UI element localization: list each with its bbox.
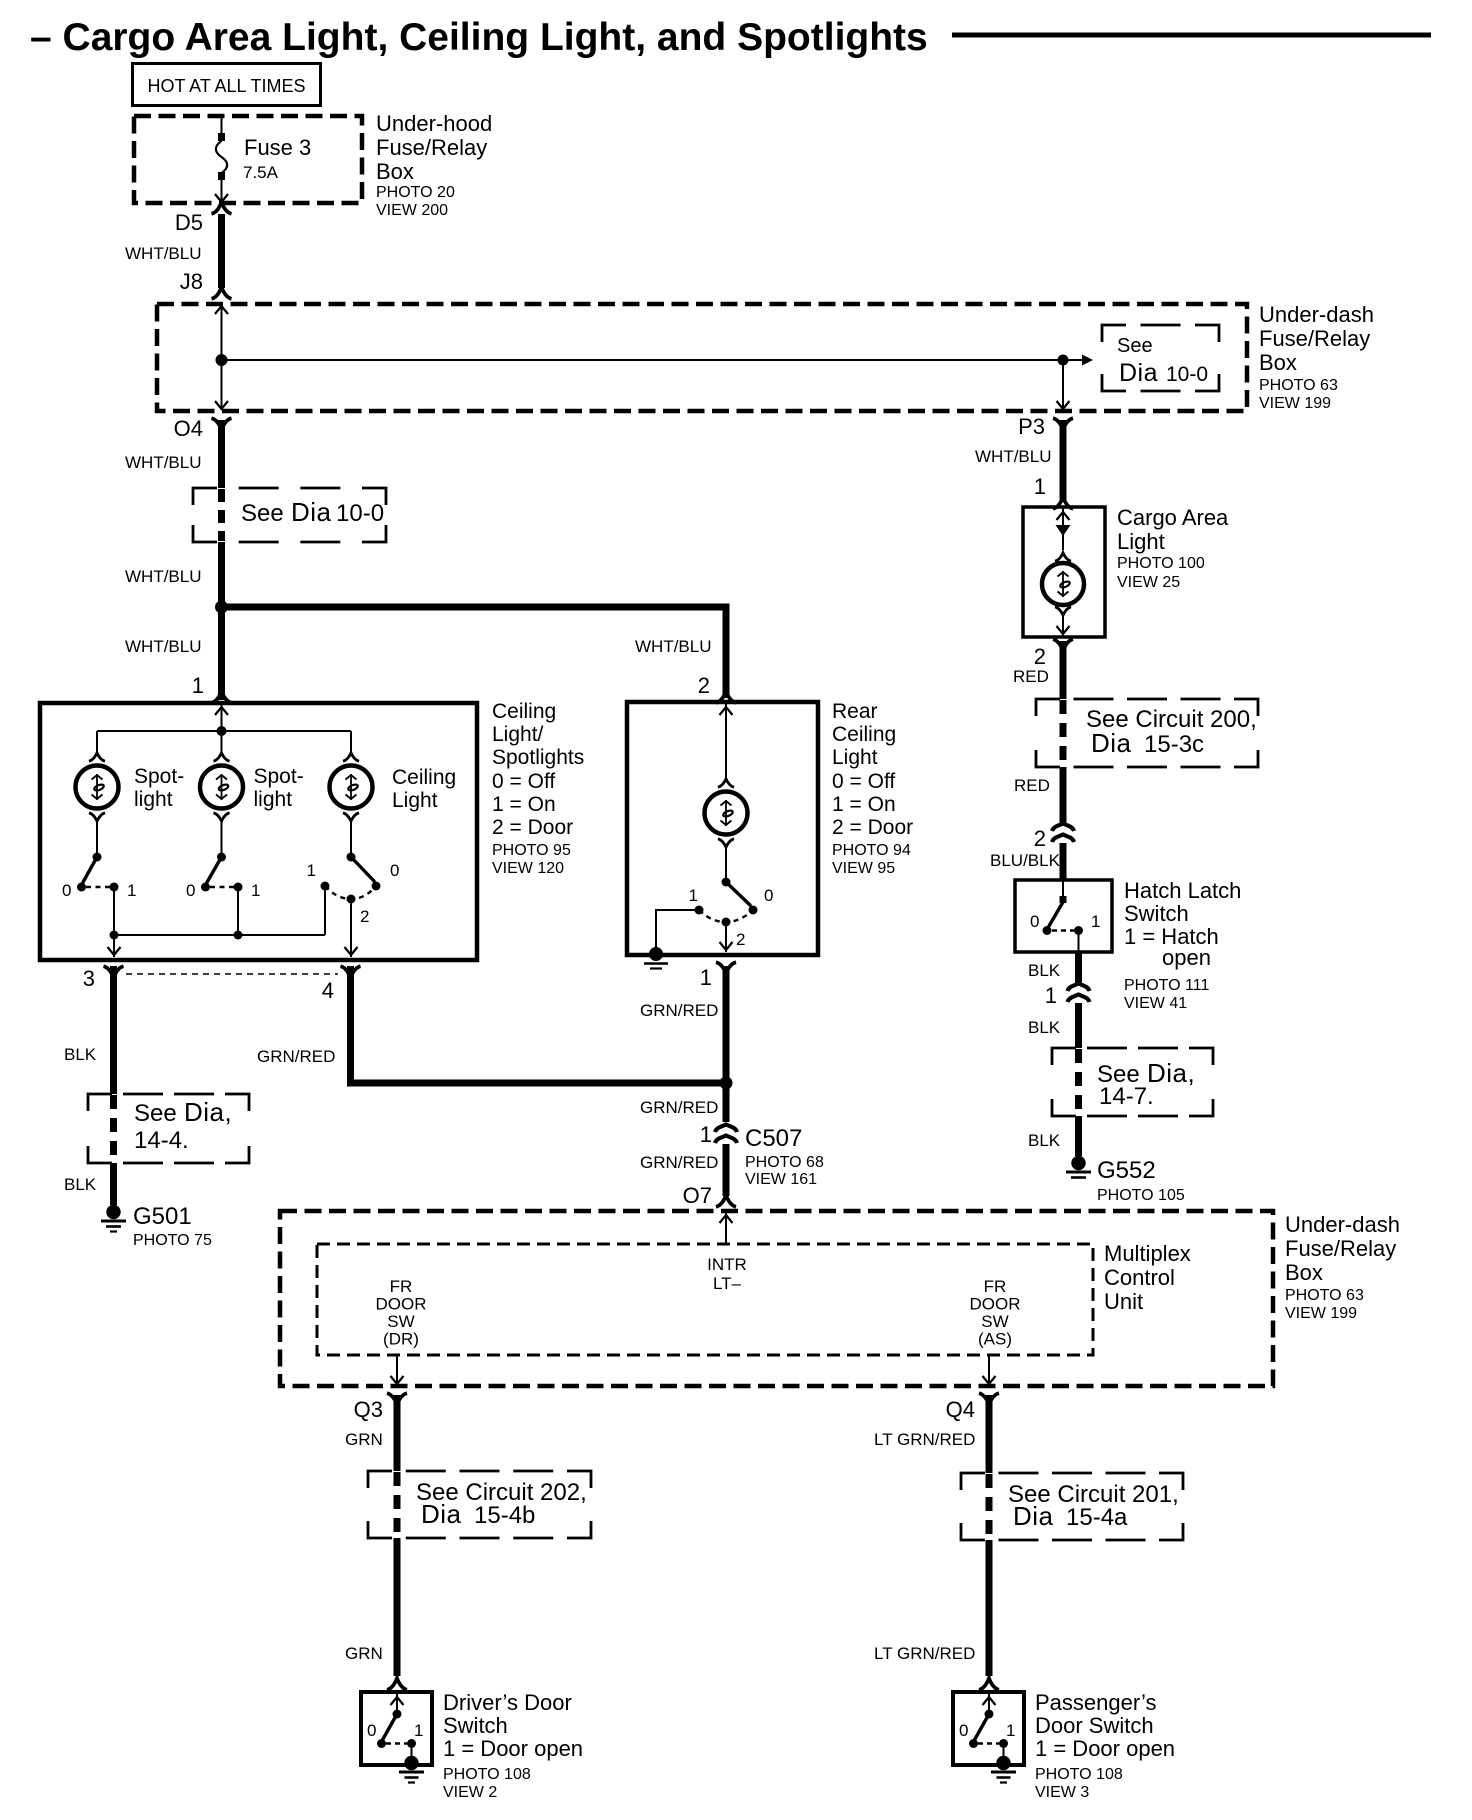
svg-text:Driver’s Door: Driver’s Door	[443, 1690, 572, 1715]
pin D5 connector	[212, 202, 232, 214]
connector at passenger's door switch	[979, 1678, 999, 1690]
svg-text:See: See	[1117, 335, 1153, 357]
ground G552	[1071, 1156, 1085, 1170]
node junction at distribution	[217, 726, 227, 736]
svg-text:(AS): (AS)	[978, 1330, 1012, 1349]
svg-text:2 = Door: 2 = Door	[492, 816, 573, 839]
switch S2 (spotlight 2)	[217, 853, 226, 862]
svg-text:See: See	[134, 1100, 177, 1127]
svg-text:INTR: INTR	[707, 1255, 747, 1274]
wire BLU/BLK to hatch latch switch	[1060, 843, 1067, 880]
svg-text:Under-dash: Under-dash	[1259, 302, 1374, 327]
svg-text:BLK: BLK	[1028, 1018, 1061, 1037]
svg-text:O4: O4	[174, 416, 203, 441]
arrow to See Dia 10-0	[1082, 355, 1093, 366]
wire WHT/BLU D5 to J8	[218, 214, 225, 288]
svg-text:VIEW 161: VIEW 161	[745, 1171, 817, 1188]
pin3-pin4 dashed link	[126, 973, 338, 975]
svg-text:2: 2	[698, 673, 710, 698]
ground (driver's door switch)	[404, 1756, 418, 1770]
svg-text:0 = Off: 0 = Off	[832, 770, 895, 793]
svg-text:PHOTO 105: PHOTO 105	[1097, 1187, 1185, 1204]
ground (passenger's door switch)	[996, 1756, 1010, 1770]
svg-text:Under-dash: Under-dash	[1285, 1212, 1400, 1237]
wire WHT/BLU below O4	[218, 420, 225, 488]
svg-text:Dia: Dia	[291, 497, 332, 527]
svg-text:0: 0	[367, 1721, 376, 1740]
svg-text:WHT/BLU: WHT/BLU	[125, 244, 202, 263]
hatch latch switch	[1062, 880, 1064, 898]
svg-text:J8: J8	[180, 269, 203, 294]
svg-text:1: 1	[1006, 1721, 1015, 1740]
svg-text:GRN: GRN	[345, 1430, 383, 1449]
svg-text:1 = Door open: 1 = Door open	[1035, 1736, 1175, 1761]
svg-text:FR: FR	[390, 1277, 413, 1296]
svg-text:15-4b: 15-4b	[474, 1502, 535, 1529]
wire RED below cargo light	[1060, 641, 1067, 699]
wire GRN/RED below rear ceiling light	[723, 966, 730, 1083]
svg-text:GRN/RED: GRN/RED	[640, 1098, 718, 1117]
node junction at right drop	[1058, 355, 1069, 366]
wire BLK below pin 3	[110, 966, 117, 1094]
svg-text:RED: RED	[1013, 667, 1049, 686]
svg-text:1: 1	[700, 965, 712, 990]
svg-text:1: 1	[251, 881, 260, 900]
svg-text:RED: RED	[1014, 776, 1050, 795]
svg-text:Box: Box	[1259, 350, 1297, 375]
svg-text:Door Switch: Door Switch	[1035, 1713, 1154, 1738]
svg-text:15-3c: 15-3c	[1144, 731, 1204, 758]
svg-text:1: 1	[1045, 983, 1057, 1008]
connector at driver's door switch	[387, 1678, 407, 1690]
svg-text:1: 1	[1034, 474, 1046, 499]
wire across under-dash box	[222, 359, 1086, 361]
svg-text:BLK: BLK	[1028, 961, 1061, 980]
svg-text:WHT/BLU: WHT/BLU	[975, 447, 1052, 466]
svg-text:Box: Box	[1285, 1260, 1323, 1285]
fuse F3 element	[221, 116, 223, 135]
cargo area light internal wire bottom	[1055, 607, 1071, 615]
svg-text:P3: P3	[1018, 414, 1045, 439]
svg-text:Control: Control	[1104, 1265, 1175, 1290]
lamp cargo area light	[1042, 563, 1084, 605]
entry wire pin1 inside	[221, 703, 223, 731]
svg-text:Ceiling: Ceiling	[392, 766, 456, 789]
multiplex control unit box	[317, 1244, 1093, 1355]
ground (rear ceiling light internal)	[649, 947, 663, 961]
svg-text:1 = Door open: 1 = Door open	[443, 1736, 583, 1761]
wire BLK to G552	[1075, 1116, 1082, 1156]
svg-text:3: 3	[83, 966, 95, 991]
pin Q3 connector	[387, 1393, 407, 1405]
wire BLK below hatch latch	[1075, 952, 1082, 984]
svg-text:0: 0	[764, 886, 773, 905]
svg-text:HOT AT ALL TIMES: HOT AT ALL TIMES	[147, 76, 305, 96]
ceiling light/spotlights unit box	[40, 703, 477, 960]
wire inside under-dash box (left drop)	[221, 306, 223, 409]
svg-text:2: 2	[1034, 826, 1046, 851]
svg-text:DOOR: DOOR	[970, 1295, 1021, 1314]
svg-text:(DR): (DR)	[383, 1330, 419, 1349]
svg-text:PHOTO 20: PHOTO 20	[376, 184, 455, 201]
node junction on left drop	[216, 354, 228, 366]
see dia 10-0 reference box (in under-dash box)	[1102, 325, 1126, 342]
svg-text:7.5A: 7.5A	[243, 163, 279, 182]
svg-text:FR: FR	[984, 1277, 1007, 1296]
svg-text:14-4.: 14-4.	[134, 1127, 189, 1154]
lamp spotlight L1	[76, 766, 119, 809]
switch rear ceiling light	[722, 878, 731, 887]
svg-text:WHT/BLU: WHT/BLU	[125, 637, 202, 656]
wire GRN/RED joining branch	[347, 1080, 726, 1087]
svg-text:PHOTO 63: PHOTO 63	[1285, 1287, 1364, 1304]
wire right drop to P3	[1062, 360, 1064, 409]
svg-text:1: 1	[700, 1122, 712, 1147]
under-dash fuse/relay box (top)	[157, 304, 1247, 411]
svg-text:Passenger’s: Passenger’s	[1035, 1690, 1156, 1715]
svg-text:WHT/BLU: WHT/BLU	[125, 453, 202, 472]
svg-text:2: 2	[1034, 644, 1046, 669]
svg-text:GRN/RED: GRN/RED	[640, 1001, 718, 1020]
entry wire pin2 inside	[725, 702, 727, 779]
svg-text:BLK: BLK	[64, 1045, 97, 1064]
svg-text:O7: O7	[683, 1183, 712, 1208]
svg-text:1: 1	[192, 673, 204, 698]
title rule	[952, 33, 1431, 38]
see circuit 202 reference box	[368, 1471, 392, 1488]
svg-text:LT–: LT–	[713, 1274, 742, 1293]
svg-text:Q4: Q4	[946, 1397, 975, 1422]
svg-text:C507: C507	[745, 1125, 802, 1152]
passenger's door switch box	[953, 1692, 1024, 1765]
svg-text:1 = On: 1 = On	[492, 793, 556, 816]
svg-text:See: See	[241, 500, 284, 527]
wire WHT/BLU below see-dia box	[218, 542, 225, 700]
svg-text:G552: G552	[1097, 1157, 1156, 1184]
wire below spotlight L1	[89, 813, 105, 821]
wire multiplex to Q3	[396, 1355, 398, 1386]
wire below spotlight L2	[214, 813, 230, 821]
svg-text:Rear: Rear	[832, 700, 878, 723]
node junction GRN/RED	[720, 1077, 733, 1090]
svg-text:Under-hood: Under-hood	[376, 111, 492, 136]
svg-text:light: light	[254, 788, 293, 811]
see circuit 201 reference box	[961, 1473, 985, 1490]
svg-text:Light/: Light/	[492, 723, 544, 746]
rear ceiling light unit box	[627, 702, 818, 955]
collector wire in unit	[114, 934, 325, 936]
svg-text:Switch: Switch	[443, 1713, 508, 1738]
svg-text:10-0: 10-0	[336, 500, 384, 527]
svg-text:D5: D5	[175, 210, 203, 235]
svg-text:Dia: Dia	[1119, 359, 1158, 387]
label box HOT AT ALL TIMES	[133, 64, 321, 106]
svg-text:Dia: Dia	[1013, 1501, 1054, 1531]
svg-text:VIEW 199: VIEW 199	[1259, 395, 1331, 412]
wire LT GRN/RED to passenger's door switch	[986, 1540, 993, 1676]
under-dash fuse/relay box (bottom)	[280, 1211, 1273, 1386]
svg-text:VIEW 2: VIEW 2	[443, 1784, 497, 1801]
wire drop to spotlight L1	[96, 731, 98, 753]
node junction to ceiling-light branch	[215, 601, 228, 614]
svg-text:1: 1	[307, 861, 316, 880]
svg-text:Spot-: Spot-	[134, 765, 184, 788]
svg-text:VIEW 41: VIEW 41	[1124, 995, 1187, 1012]
svg-text:0 = Off: 0 = Off	[492, 770, 555, 793]
wire BLK to see-dia 14-7	[1075, 1003, 1082, 1048]
wire BLK to G501	[110, 1163, 117, 1205]
svg-text:GRN/RED: GRN/RED	[257, 1047, 335, 1066]
svg-text:Dia,: Dia,	[1147, 1058, 1195, 1088]
svg-text:PHOTO 95: PHOTO 95	[492, 842, 571, 859]
svg-text:0: 0	[390, 861, 399, 880]
svg-text:VIEW 120: VIEW 120	[492, 860, 564, 877]
svg-text:G501: G501	[133, 1203, 192, 1230]
see circuit 200 reference box	[1036, 699, 1060, 716]
lamp spotlight L2	[200, 766, 243, 809]
svg-text:Fuse/Relay: Fuse/Relay	[376, 135, 487, 160]
wire drop to ceiling light L3	[350, 731, 352, 753]
svg-text:1: 1	[127, 881, 136, 900]
svg-text:LT GRN/RED: LT GRN/RED	[874, 1430, 975, 1449]
svg-text:Spotlights: Spotlights	[492, 746, 584, 769]
svg-text:0: 0	[1030, 912, 1039, 931]
see dia 10-0 reference box (left wire)	[193, 488, 217, 505]
svg-text:Light: Light	[392, 789, 438, 812]
svg-text:WHT/BLU: WHT/BLU	[635, 637, 712, 656]
wire GRN below Q3	[394, 1395, 401, 1471]
svg-text:Dia: Dia	[421, 1499, 462, 1529]
svg-text:0: 0	[186, 881, 195, 900]
svg-text:PHOTO 63: PHOTO 63	[1259, 377, 1338, 394]
svg-text:DOOR: DOOR	[376, 1295, 427, 1314]
svg-text:light: light	[134, 788, 173, 811]
wire to pin 3	[113, 935, 115, 957]
svg-text:PHOTO 108: PHOTO 108	[443, 1766, 531, 1783]
svg-text:1: 1	[689, 886, 698, 905]
wire GRN/RED to C507	[723, 1083, 730, 1122]
svg-text:VIEW 25: VIEW 25	[1117, 574, 1180, 591]
wire to pin 4 (door position 2)	[350, 899, 352, 957]
driver's door switch	[396, 1692, 398, 1714]
lamp ceiling light L3	[330, 766, 373, 809]
svg-text:VIEW 199: VIEW 199	[1285, 1305, 1357, 1322]
svg-text:Q3: Q3	[354, 1397, 383, 1422]
wire below ceiling light L3	[343, 813, 359, 821]
see dia 14-4 reference box	[88, 1094, 112, 1111]
svg-text:1 = On: 1 = On	[832, 793, 896, 816]
passenger's door switch	[988, 1692, 990, 1714]
hatch latch switch box	[1015, 880, 1112, 952]
svg-text:10-0: 10-0	[1166, 363, 1208, 386]
svg-text:1: 1	[1091, 912, 1100, 931]
wire S2 contact1 down	[237, 887, 239, 935]
svg-text:– Cargo Area Light, Ceiling Li: – Cargo Area Light, Ceiling Light, and S…	[30, 16, 928, 59]
svg-text:15-4a: 15-4a	[1066, 1504, 1128, 1531]
svg-text:PHOTO 108: PHOTO 108	[1035, 1766, 1123, 1783]
wire GRN to driver's door switch	[394, 1538, 401, 1676]
svg-text:LT GRN/RED: LT GRN/RED	[874, 1644, 975, 1663]
wire switch pos2 to pin 1	[725, 922, 727, 952]
svg-text:Fuse/Relay: Fuse/Relay	[1259, 326, 1370, 351]
svg-text:open: open	[1162, 945, 1211, 970]
svg-text:Dia: Dia	[1091, 728, 1132, 758]
lamp rear ceiling light	[705, 792, 748, 835]
svg-text:Spot-: Spot-	[254, 765, 304, 788]
svg-text:Cargo Area: Cargo Area	[1117, 505, 1229, 530]
wire GRN/RED from pin 4	[347, 966, 354, 1083]
ground G501	[106, 1205, 120, 1219]
driver's door switch box	[361, 1692, 432, 1765]
wire LT GRN/RED below Q4	[986, 1395, 993, 1473]
svg-text:PHOTO 94: PHOTO 94	[832, 842, 911, 859]
svg-text:2: 2	[736, 930, 745, 949]
svg-text:14-7.: 14-7.	[1099, 1083, 1154, 1110]
svg-text:Hatch Latch: Hatch Latch	[1124, 878, 1241, 903]
wire drop to spotlight L2	[221, 731, 223, 753]
wire S1 contact1 down	[113, 887, 115, 935]
wire multiplex to Q4	[988, 1355, 990, 1386]
svg-text:4: 4	[322, 978, 334, 1003]
svg-text:Ceiling: Ceiling	[832, 723, 896, 746]
svg-text:VIEW 3: VIEW 3	[1035, 1784, 1089, 1801]
svg-text:PHOTO 68: PHOTO 68	[745, 1154, 824, 1171]
svg-text:0: 0	[62, 881, 71, 900]
cargo area light internal wire top	[1062, 507, 1064, 550]
wire RED below see-circuit box	[1060, 767, 1067, 824]
svg-text:Switch: Switch	[1124, 901, 1189, 926]
svg-text:VIEW 200: VIEW 200	[376, 202, 448, 219]
svg-text:WHT/BLU: WHT/BLU	[125, 567, 202, 586]
distribution wire	[97, 730, 351, 732]
svg-text:GRN/RED: GRN/RED	[640, 1153, 718, 1172]
wire S3 contact1 down	[324, 886, 326, 935]
svg-text:GRN: GRN	[345, 1644, 383, 1663]
svg-text:Fuse/Relay: Fuse/Relay	[1285, 1236, 1396, 1261]
svg-text:PHOTO 100: PHOTO 100	[1117, 555, 1205, 572]
wire O7 into multiplex	[725, 1213, 727, 1244]
under-hood fuse/relay box	[134, 116, 362, 203]
svg-text:SW: SW	[981, 1312, 1008, 1331]
svg-text:Dia,: Dia,	[184, 1097, 232, 1127]
svg-text:Ceiling: Ceiling	[492, 700, 556, 723]
wire switch pos1 to ground	[656, 910, 699, 951]
svg-text:2: 2	[360, 907, 369, 926]
wire WHT/BLU branch to rear ceiling light	[222, 604, 727, 611]
pin Q4 connector	[979, 1393, 999, 1405]
svg-text:Multiplex: Multiplex	[1104, 1241, 1191, 1266]
svg-text:Unit: Unit	[1104, 1289, 1143, 1314]
switch S3 (ceiling light 0/1/2)	[347, 853, 356, 862]
svg-text:Light: Light	[832, 746, 878, 769]
wire GRN/RED to O7	[723, 1144, 730, 1196]
svg-text:0: 0	[959, 1721, 968, 1740]
svg-text:Box: Box	[376, 159, 414, 184]
wire WHT/BLU below P3	[1060, 420, 1067, 500]
svg-text:BLU/BLK: BLU/BLK	[990, 851, 1061, 870]
svg-text:1: 1	[414, 1721, 423, 1740]
svg-text:PHOTO 111: PHOTO 111	[1124, 977, 1209, 994]
svg-text:Light: Light	[1117, 529, 1165, 554]
svg-text:SW: SW	[387, 1312, 414, 1331]
svg-text:2 = Door: 2 = Door	[832, 816, 913, 839]
svg-text:Fuse 3: Fuse 3	[244, 135, 311, 160]
see dia 14-7 reference box	[1052, 1048, 1076, 1065]
svg-text:BLK: BLK	[64, 1175, 97, 1194]
svg-text:PHOTO 75: PHOTO 75	[133, 1232, 212, 1249]
switch S1 (spotlight 1)	[93, 853, 102, 862]
wire below rear lamp	[718, 839, 734, 847]
svg-text:BLK: BLK	[1028, 1131, 1061, 1150]
cargo area light box	[1023, 507, 1105, 637]
svg-text:VIEW 95: VIEW 95	[832, 860, 895, 877]
